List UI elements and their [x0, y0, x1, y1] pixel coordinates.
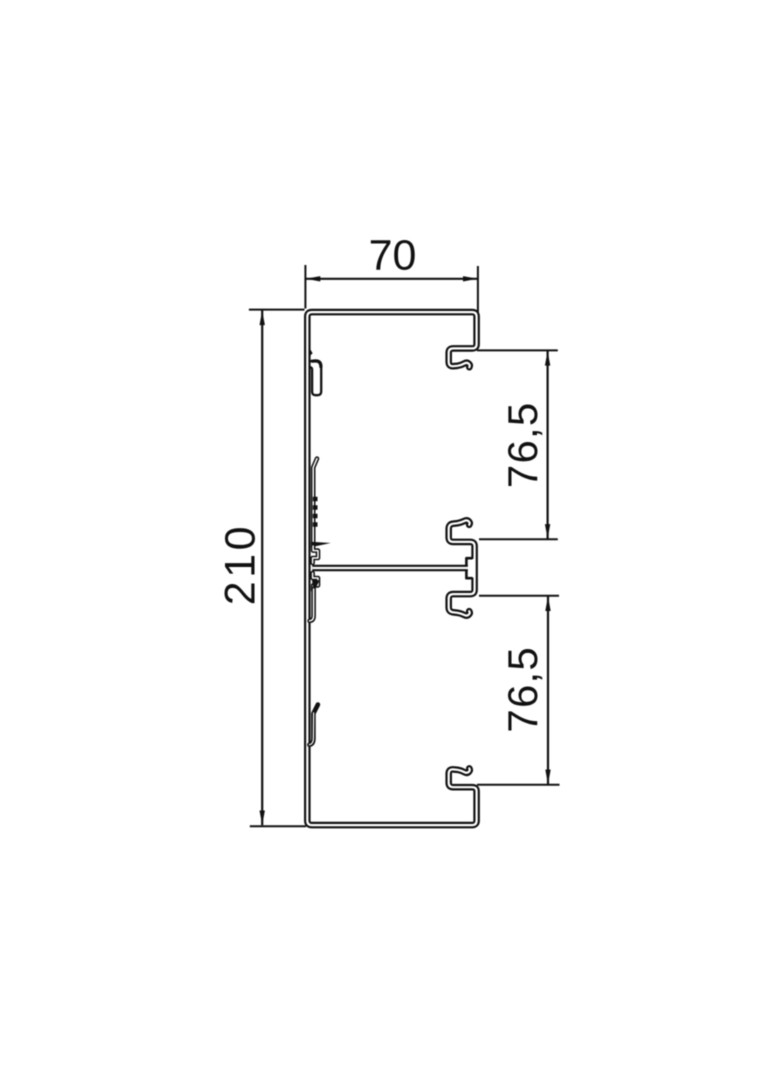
main profile sheet outline (trunking body with top/bottom hooks) [307, 312, 476, 825]
extension line 210 bottom [250, 825, 306, 827]
svg-text:70: 70 [369, 232, 417, 280]
svg-text:210: 210 [217, 523, 265, 605]
extension line 210 top [249, 309, 305, 311]
barb spike above divider [311, 542, 331, 547]
wedge below divider [312, 579, 320, 592]
extension line 76,5 upper bottom [479, 538, 558, 540]
dimension line 76,5 lower [547, 596, 549, 784]
extension line 76,5 lower top [479, 595, 559, 597]
extension line 76,5 upper top [477, 349, 558, 351]
svg-text:76,5: 76,5 [499, 646, 546, 733]
arrow 76,5 lower bottom [545, 770, 550, 785]
arrow 210 top [260, 311, 265, 326]
meander joint below divider [313, 573, 318, 590]
arrow 76,5 upper top [545, 351, 550, 366]
wall clip upper (hairpin tab) [310, 361, 322, 396]
extension line 70 left [304, 265, 306, 309]
divider slot opening in bar [468, 559, 475, 578]
dimension line 210 [261, 310, 263, 825]
extension line 70 right [477, 266, 479, 312]
middle spring strip above divider [313, 459, 317, 544]
teeth on middle strip [313, 499, 318, 525]
dimension line 76,5 upper [546, 351, 548, 539]
arrow 70 right [463, 276, 478, 281]
notch top at divider/bar junction [466, 558, 472, 566]
arrow 76,5 upper bottom [545, 524, 550, 539]
divider end bar with hooks [449, 520, 475, 615]
notch bottom at divider/bar junction [466, 570, 472, 578]
lower middle spring strip below divider [310, 589, 314, 621]
dimension line 70 [305, 278, 478, 280]
svg-text:76,5: 76,5 [499, 402, 546, 489]
arrow 76,5 lower top [545, 597, 550, 612]
extension line 76,5 lower bottom [477, 784, 560, 786]
meander joint above divider [313, 546, 318, 563]
wall clip lower (leaf spring) [309, 705, 318, 745]
divider (separating wall) [312, 565, 468, 572]
arrow 210 bottom [260, 811, 265, 826]
wall wedge above upper clip [309, 346, 313, 357]
arrow 70 left [306, 276, 321, 281]
